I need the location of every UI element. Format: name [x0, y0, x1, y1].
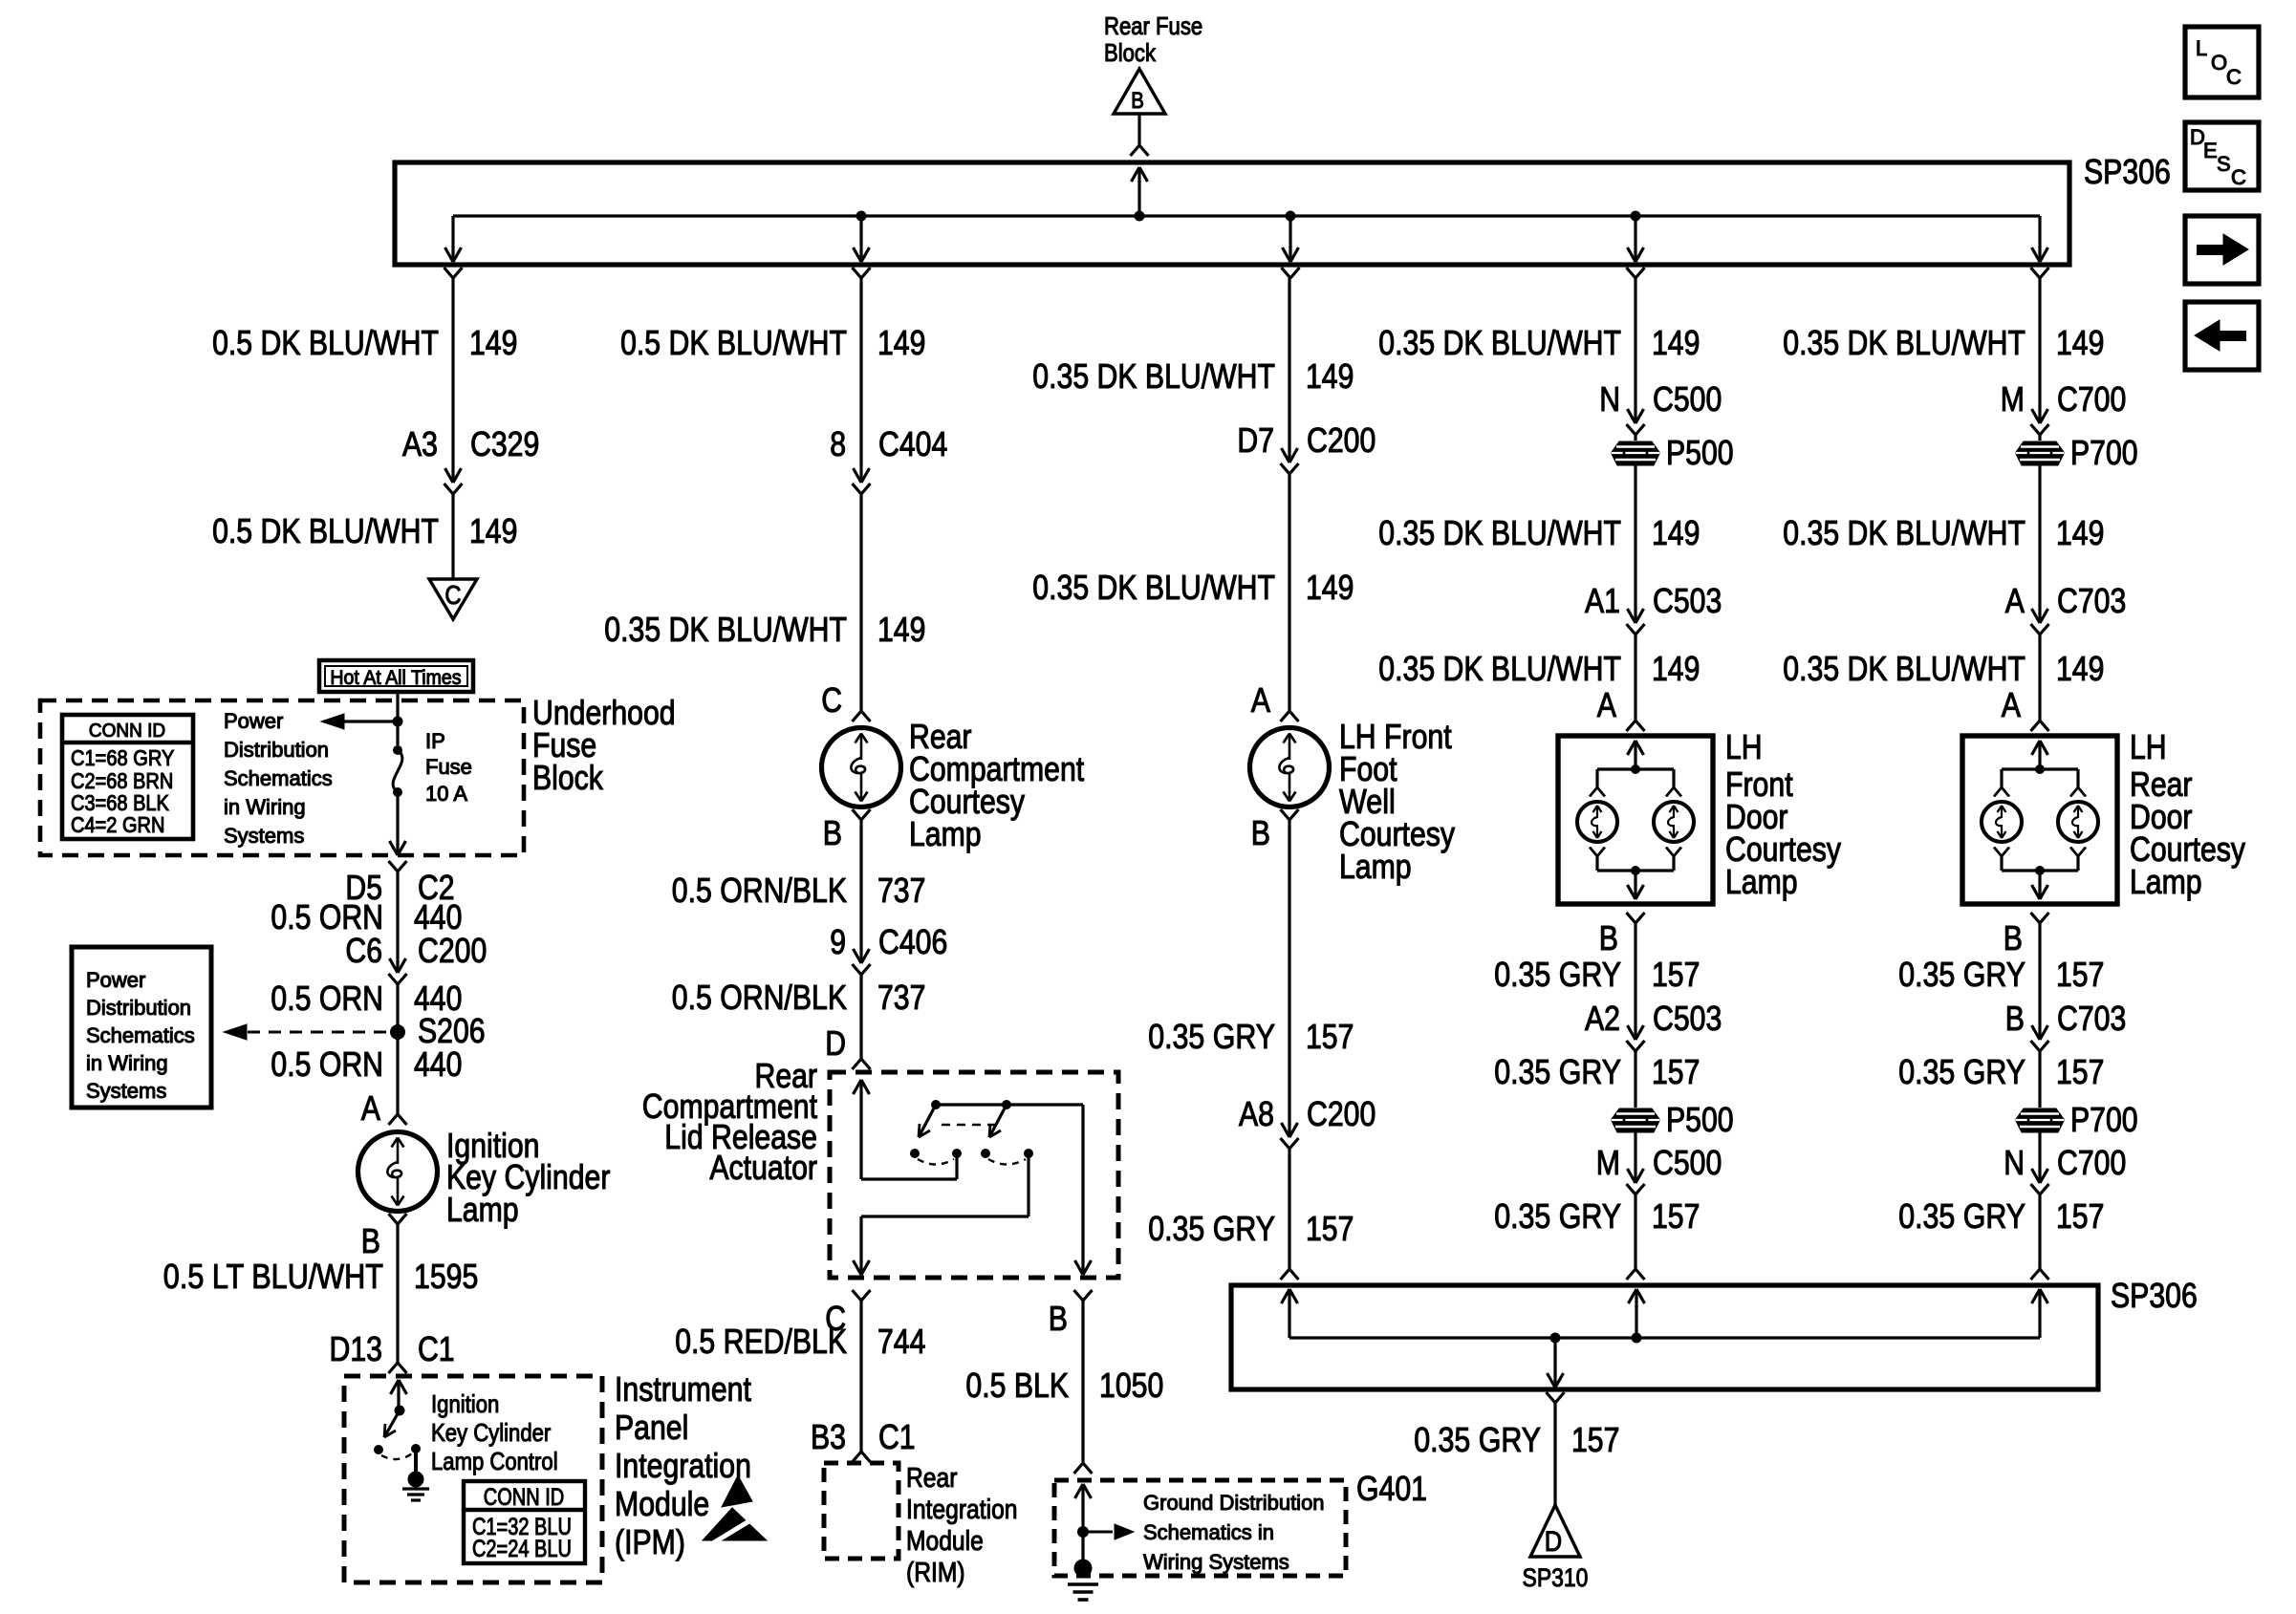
- svg-text:C: C: [821, 680, 842, 720]
- svg-text:P500: P500: [1666, 1100, 1734, 1139]
- svg-text:8: 8: [830, 424, 846, 463]
- svg-text:Block: Block: [1104, 38, 1157, 67]
- svg-text:Instrument: Instrument: [615, 1369, 751, 1409]
- svg-text:A1: A1: [1585, 581, 1620, 620]
- svg-text:B: B: [1599, 918, 1618, 958]
- svg-text:E: E: [2203, 139, 2218, 162]
- svg-text:Wiring Systems: Wiring Systems: [1143, 1550, 1289, 1574]
- svg-text:Integration: Integration: [615, 1446, 751, 1485]
- svg-text:737: 737: [877, 871, 925, 910]
- svg-text:Systems: Systems: [224, 824, 304, 848]
- svg-text:10 A: 10 A: [425, 782, 467, 806]
- svg-text:0.35 GRY: 0.35 GRY: [1148, 1209, 1275, 1248]
- svg-text:B: B: [2005, 999, 2025, 1038]
- svg-text:C1=68 GRY: C1=68 GRY: [71, 745, 174, 770]
- svg-text:149: 149: [1652, 323, 1700, 362]
- svg-text:Lamp: Lamp: [446, 1190, 519, 1229]
- svg-text:0.35 GRY: 0.35 GRY: [1494, 955, 1621, 994]
- svg-text:B: B: [1251, 813, 1270, 852]
- svg-text:B: B: [361, 1221, 380, 1260]
- svg-text:P700: P700: [2070, 1100, 2138, 1139]
- svg-text:0.35 GRY: 0.35 GRY: [1148, 1017, 1275, 1056]
- svg-text:C2=24 BLU: C2=24 BLU: [472, 1536, 572, 1562]
- svg-text:9: 9: [830, 922, 846, 961]
- svg-text:Ignition: Ignition: [431, 1389, 499, 1418]
- svg-text:Lamp: Lamp: [909, 814, 982, 853]
- svg-text:B: B: [1131, 88, 1144, 114]
- svg-text:157: 157: [2056, 955, 2104, 994]
- svg-text:149: 149: [2056, 649, 2104, 688]
- svg-text:0.35 DK BLU/WHT: 0.35 DK BLU/WHT: [1378, 513, 1621, 552]
- svg-text:157: 157: [1652, 1052, 1700, 1091]
- svg-text:1595: 1595: [414, 1257, 478, 1296]
- svg-text:M: M: [2001, 379, 2025, 419]
- svg-text:157: 157: [1652, 955, 1700, 994]
- svg-text:0.5 ORN: 0.5 ORN: [271, 979, 383, 1018]
- svg-text:0.35 DK BLU/WHT: 0.35 DK BLU/WHT: [1032, 568, 1275, 607]
- svg-text:0.35 DK BLU/WHT: 0.35 DK BLU/WHT: [1783, 513, 2025, 552]
- svg-text:0.35 DK BLU/WHT: 0.35 DK BLU/WHT: [604, 610, 847, 649]
- svg-text:C500: C500: [1653, 379, 1722, 419]
- svg-text:LH: LH: [1725, 727, 1763, 766]
- svg-text:A2: A2: [1585, 999, 1620, 1038]
- svg-text:157: 157: [1652, 1196, 1700, 1236]
- svg-text:C: C: [2226, 65, 2242, 89]
- svg-text:744: 744: [877, 1322, 925, 1361]
- svg-text:A: A: [1251, 680, 1270, 720]
- svg-text:Distribution: Distribution: [86, 996, 191, 1020]
- svg-text:0.5 RED/BLK: 0.5 RED/BLK: [675, 1322, 847, 1361]
- svg-text:P500: P500: [1666, 433, 1734, 472]
- svg-text:149: 149: [1652, 513, 1700, 552]
- svg-text:157: 157: [1571, 1420, 1619, 1459]
- svg-text:Lamp: Lamp: [1725, 862, 1798, 901]
- svg-text:A: A: [361, 1088, 380, 1128]
- svg-text:LH: LH: [2130, 727, 2167, 766]
- svg-text:C700: C700: [2057, 1143, 2126, 1182]
- svg-text:Power: Power: [86, 968, 145, 992]
- svg-text:149: 149: [2056, 513, 2104, 552]
- svg-text:in Wiring: in Wiring: [86, 1051, 168, 1075]
- svg-text:IP: IP: [425, 729, 445, 753]
- svg-text:149: 149: [469, 511, 517, 550]
- svg-text:Lamp Control: Lamp Control: [431, 1447, 558, 1475]
- svg-text:B: B: [2004, 918, 2023, 958]
- svg-text:L: L: [2196, 36, 2207, 60]
- svg-text:157: 157: [1306, 1017, 1354, 1056]
- svg-text:D13: D13: [330, 1329, 383, 1368]
- svg-text:0.35 GRY: 0.35 GRY: [1414, 1420, 1541, 1459]
- svg-text:B: B: [1049, 1299, 1068, 1338]
- svg-text:Power: Power: [224, 709, 283, 733]
- svg-text:D: D: [1545, 1526, 1562, 1558]
- svg-text:Ground Distribution: Ground Distribution: [1143, 1491, 1325, 1515]
- svg-text:157: 157: [2056, 1052, 2104, 1091]
- svg-text:0.35 GRY: 0.35 GRY: [1898, 955, 2025, 994]
- svg-text:C: C: [2231, 165, 2246, 189]
- svg-text:in Wiring: in Wiring: [224, 795, 306, 819]
- svg-text:0.35 GRY: 0.35 GRY: [1898, 1052, 2025, 1091]
- svg-text:(IPM): (IPM): [615, 1522, 685, 1561]
- svg-text:0.5 ORN/BLK: 0.5 ORN/BLK: [672, 978, 847, 1017]
- svg-text:0.35 GRY: 0.35 GRY: [1494, 1052, 1621, 1091]
- svg-text:D7: D7: [1237, 420, 1274, 460]
- svg-text:S: S: [2217, 152, 2231, 176]
- svg-text:Schematics: Schematics: [86, 1023, 195, 1047]
- svg-text:Lamp: Lamp: [2130, 862, 2202, 901]
- svg-text:149: 149: [877, 323, 925, 362]
- svg-text:737: 737: [877, 978, 925, 1017]
- svg-text:149: 149: [2056, 323, 2104, 362]
- svg-text:0.35 GRY: 0.35 GRY: [1494, 1196, 1621, 1236]
- svg-text:0.5 DK BLU/WHT: 0.5 DK BLU/WHT: [212, 323, 439, 362]
- svg-text:A: A: [2005, 581, 2025, 620]
- svg-text:C1: C1: [878, 1417, 916, 1456]
- svg-text:C503: C503: [1653, 999, 1722, 1038]
- svg-text:A8: A8: [1239, 1094, 1274, 1133]
- svg-text:CONN ID: CONN ID: [484, 1484, 564, 1511]
- svg-text:0.5 DK BLU/WHT: 0.5 DK BLU/WHT: [212, 511, 439, 550]
- svg-text:C703: C703: [2057, 999, 2126, 1038]
- svg-text:SP310: SP310: [1523, 1563, 1589, 1592]
- svg-text:0.35 DK BLU/WHT: 0.35 DK BLU/WHT: [1378, 649, 1621, 688]
- svg-text:0.5 LT BLU/WHT: 0.5 LT BLU/WHT: [163, 1257, 383, 1296]
- svg-text:C: C: [444, 580, 461, 610]
- svg-text:149: 149: [1652, 649, 1700, 688]
- svg-text:440: 440: [414, 1044, 462, 1084]
- svg-text:C200: C200: [1307, 420, 1375, 460]
- svg-text:149: 149: [469, 323, 517, 362]
- svg-text:0.5 BLK: 0.5 BLK: [965, 1366, 1069, 1405]
- svg-text:Lamp: Lamp: [1339, 847, 1412, 886]
- svg-text:P700: P700: [2070, 433, 2138, 472]
- svg-text:0.5 ORN/BLK: 0.5 ORN/BLK: [672, 871, 847, 910]
- svg-text:C404: C404: [878, 424, 947, 463]
- svg-text:C6: C6: [345, 931, 382, 970]
- svg-text:C200: C200: [418, 931, 487, 970]
- svg-text:Actuator: Actuator: [709, 1148, 817, 1187]
- svg-text:A: A: [2002, 685, 2021, 724]
- svg-text:149: 149: [877, 610, 925, 649]
- svg-text:Fuse: Fuse: [425, 755, 472, 779]
- svg-text:0.35 DK BLU/WHT: 0.35 DK BLU/WHT: [1378, 323, 1621, 362]
- svg-text:0.5 ORN: 0.5 ORN: [271, 1044, 383, 1084]
- svg-text:G401: G401: [1356, 1469, 1427, 1508]
- svg-text:C503: C503: [1653, 581, 1722, 620]
- svg-text:M: M: [1596, 1143, 1620, 1182]
- svg-text:C700: C700: [2057, 379, 2126, 419]
- svg-text:Module: Module: [906, 1526, 984, 1557]
- svg-text:B: B: [823, 813, 842, 852]
- svg-text:0.5 DK BLU/WHT: 0.5 DK BLU/WHT: [620, 323, 847, 362]
- svg-text:N: N: [1599, 379, 1620, 419]
- svg-text:Module: Module: [615, 1484, 709, 1523]
- svg-text:C406: C406: [878, 922, 947, 961]
- svg-text:149: 149: [1306, 568, 1354, 607]
- svg-text:Schematics in: Schematics in: [1143, 1520, 1274, 1544]
- svg-text:0.35 DK BLU/WHT: 0.35 DK BLU/WHT: [1783, 323, 2025, 362]
- svg-text:0.35 DK BLU/WHT: 0.35 DK BLU/WHT: [1032, 356, 1275, 396]
- svg-text:C200: C200: [1307, 1094, 1375, 1133]
- svg-text:Rear: Rear: [906, 1463, 958, 1494]
- svg-text:Systems: Systems: [86, 1079, 166, 1103]
- svg-text:D: D: [825, 1023, 846, 1063]
- svg-text:CONN ID: CONN ID: [89, 721, 165, 742]
- svg-text:A: A: [1597, 685, 1616, 724]
- svg-text:C329: C329: [470, 424, 539, 463]
- svg-text:O: O: [2211, 51, 2227, 75]
- svg-text:C4=2 GRN: C4=2 GRN: [71, 812, 164, 837]
- svg-text:149: 149: [1306, 356, 1354, 396]
- svg-text:C1: C1: [418, 1329, 455, 1368]
- svg-text:157: 157: [1306, 1209, 1354, 1248]
- svg-text:Key Cylinder: Key Cylinder: [431, 1418, 552, 1447]
- svg-text:B3: B3: [811, 1417, 846, 1456]
- svg-text:157: 157: [2056, 1196, 2104, 1236]
- svg-text:C500: C500: [1653, 1143, 1722, 1182]
- svg-text:Hot At All Times: Hot At All Times: [330, 666, 461, 689]
- svg-text:Integration: Integration: [906, 1495, 1018, 1525]
- svg-text:0.35 GRY: 0.35 GRY: [1898, 1196, 2025, 1236]
- svg-text:N: N: [2004, 1143, 2025, 1182]
- svg-text:Panel: Panel: [615, 1408, 688, 1447]
- svg-text:0.35 DK BLU/WHT: 0.35 DK BLU/WHT: [1783, 649, 2025, 688]
- svg-text:(RIM): (RIM): [906, 1558, 965, 1588]
- svg-text:Distribution: Distribution: [224, 738, 329, 762]
- svg-text:Rear Fuse: Rear Fuse: [1104, 11, 1202, 40]
- svg-text:SP306: SP306: [2111, 1276, 2198, 1315]
- svg-text:Schematics: Schematics: [224, 766, 333, 790]
- svg-text:A3: A3: [402, 424, 438, 463]
- svg-text:C703: C703: [2057, 581, 2126, 620]
- svg-text:1050: 1050: [1099, 1366, 1163, 1405]
- svg-text:SP306: SP306: [2084, 152, 2171, 191]
- svg-text:Block: Block: [532, 758, 604, 797]
